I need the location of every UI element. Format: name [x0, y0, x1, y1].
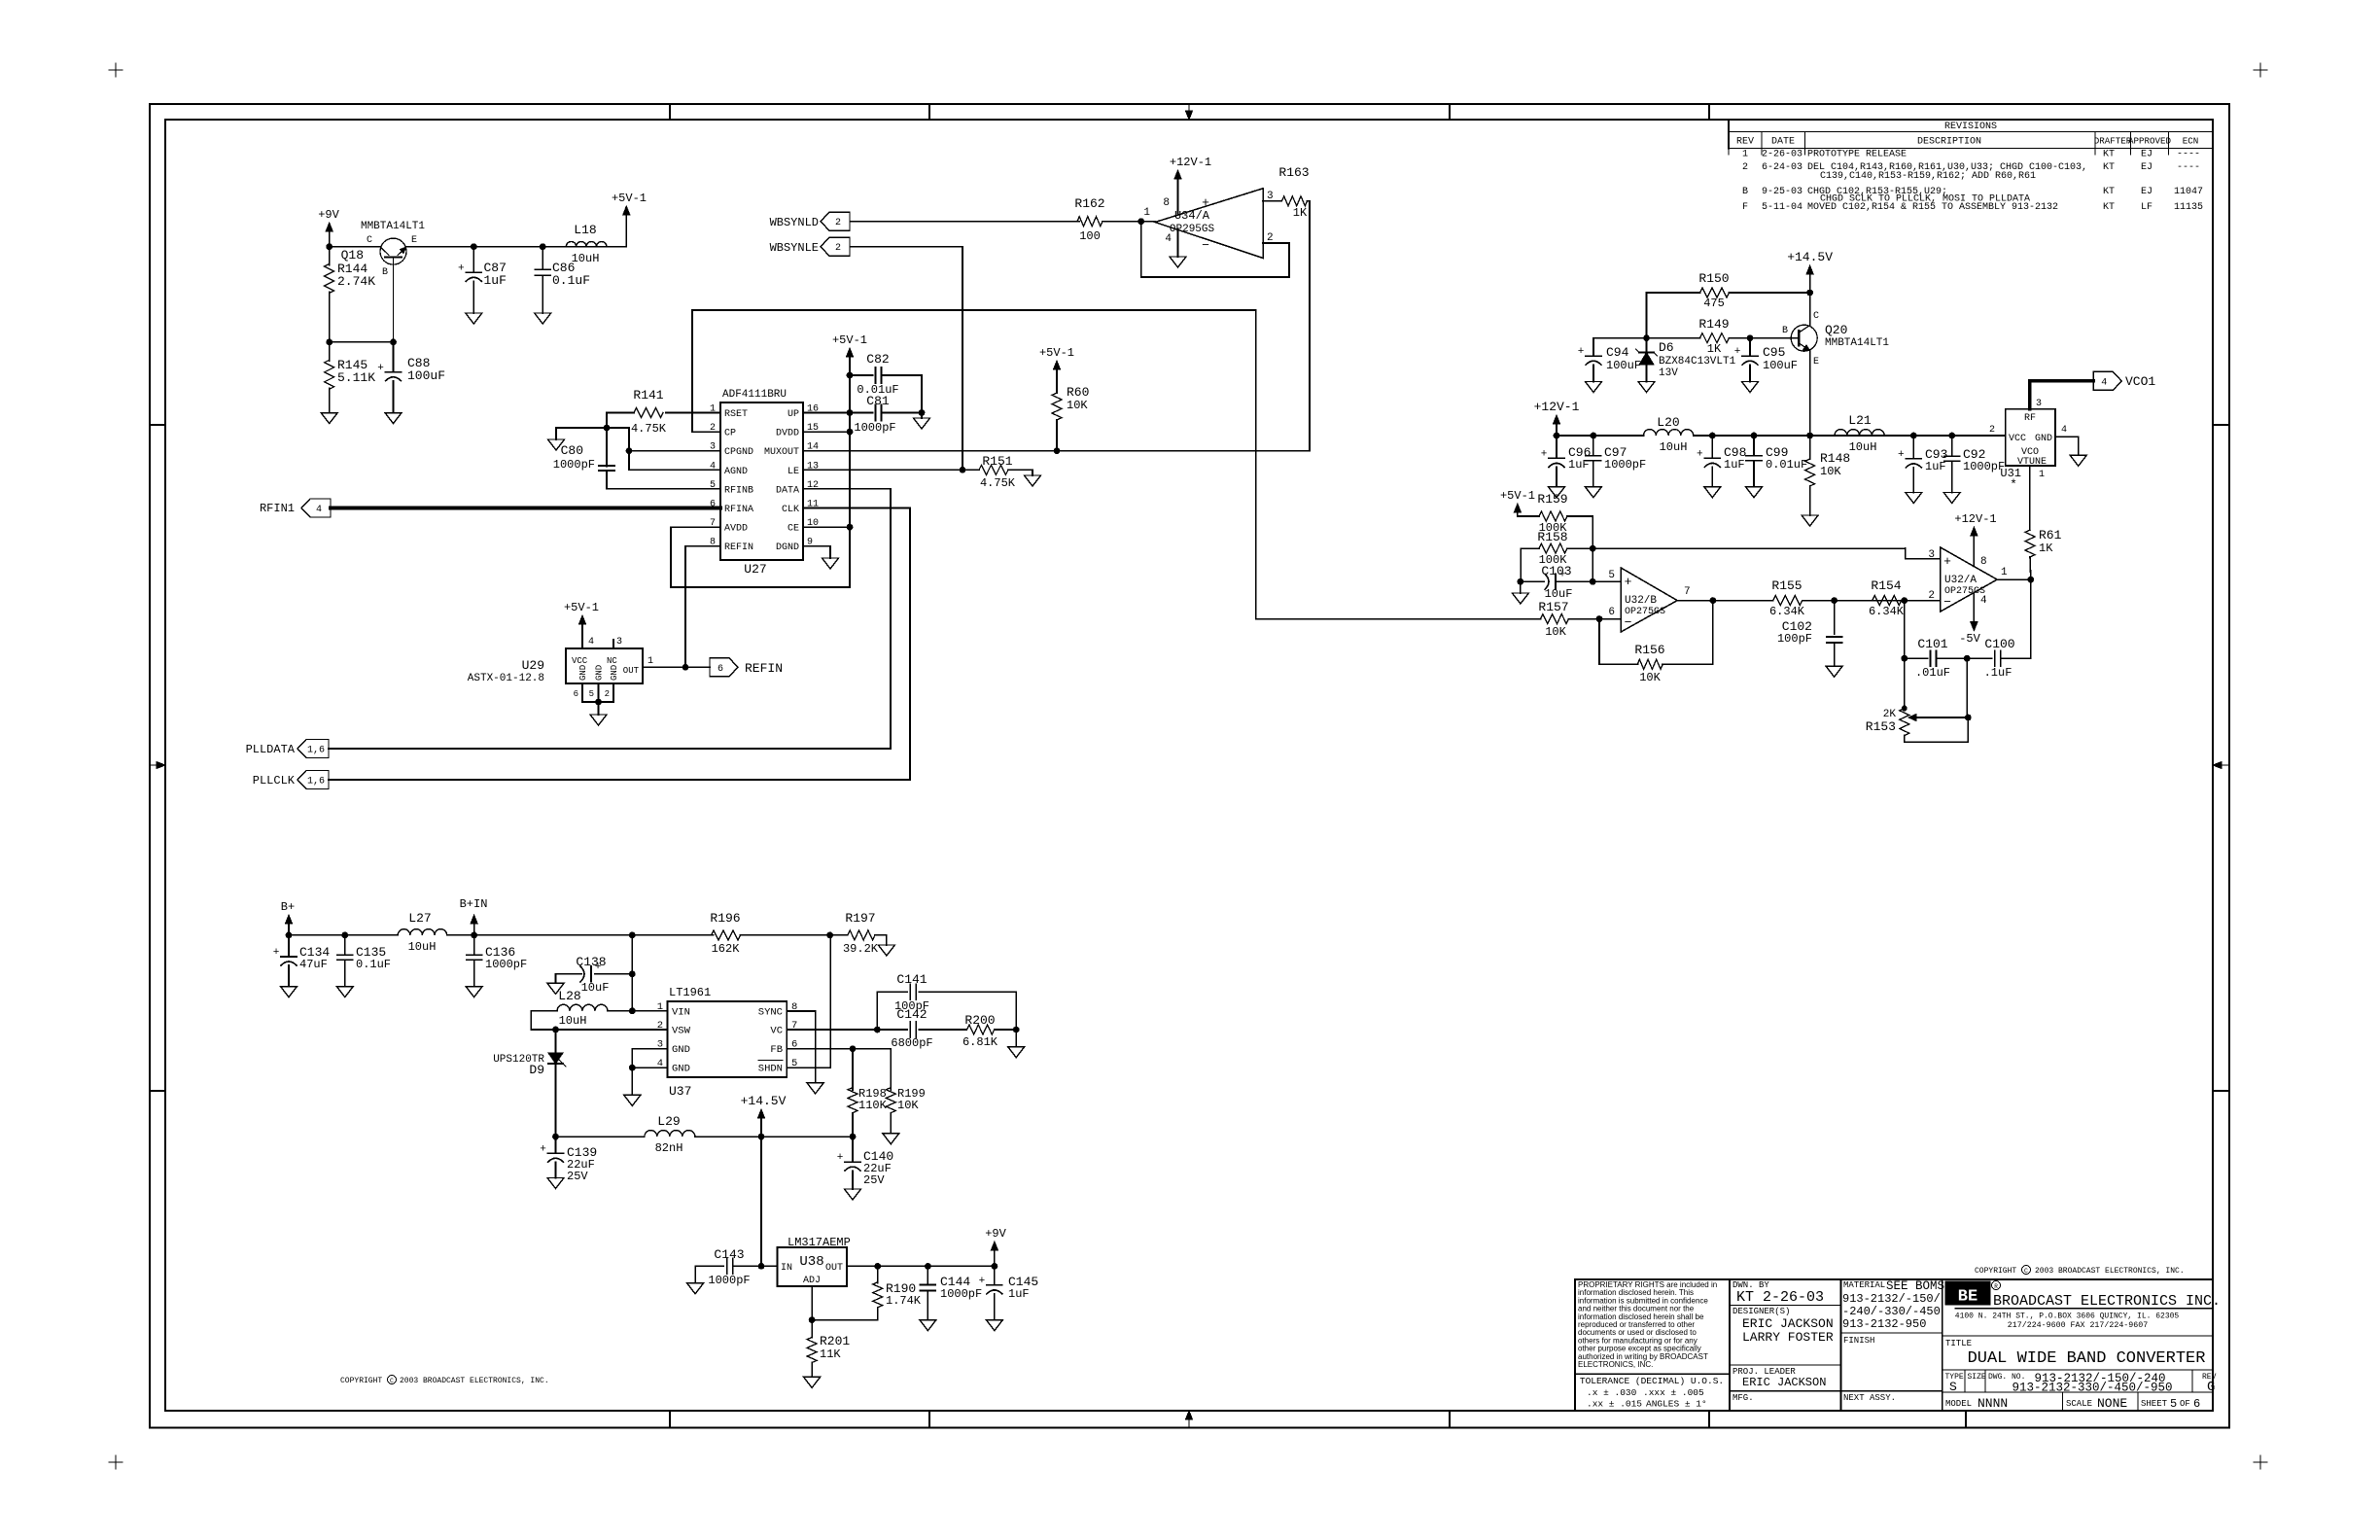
svg-text:U34/A: U34/A	[1174, 209, 1210, 223]
svg-text:C: C	[2024, 1268, 2028, 1275]
svg-text:C81: C81	[866, 394, 890, 408]
svg-text:2-26-03: 2-26-03	[1762, 150, 1802, 160]
svg-text:KT: KT	[2103, 150, 2115, 160]
svg-text:DATE: DATE	[1771, 137, 1795, 148]
svg-text:C101: C101	[1917, 637, 1947, 651]
svg-text:ERIC JACKSON: ERIC JACKSON	[1742, 1376, 1826, 1389]
svg-text:−: −	[1943, 595, 1951, 610]
svg-text:1K: 1K	[2039, 542, 2053, 555]
svg-text:+12V-1: +12V-1	[1534, 400, 1580, 414]
svg-text:R162: R162	[1074, 196, 1104, 211]
svg-text:LE: LE	[787, 467, 799, 477]
svg-text:VCC: VCC	[572, 656, 588, 666]
svg-text:KT 2-26-03: KT 2-26-03	[1736, 1289, 1824, 1306]
svg-text:6-24-03: 6-24-03	[1762, 162, 1802, 173]
svg-text:GND: GND	[2035, 434, 2052, 444]
svg-text:NNNN: NNNN	[1977, 1396, 2008, 1411]
svg-text:11135: 11135	[2174, 202, 2203, 213]
svg-text:6.34K: 6.34K	[1869, 605, 1905, 618]
svg-text:.xxx ± .005: .xxx ± .005	[1643, 1387, 1704, 1398]
svg-text:ANGLES ± 1°: ANGLES ± 1°	[1646, 1399, 1707, 1410]
svg-text:*: *	[2010, 477, 2017, 492]
svg-text:SCALE: SCALE	[2066, 1399, 2092, 1409]
svg-text:9-25-03: 9-25-03	[1762, 187, 1802, 197]
svg-text:10K: 10K	[1067, 399, 1088, 412]
svg-text:1000pF: 1000pF	[1963, 460, 2005, 473]
svg-text:10uH: 10uH	[408, 940, 437, 954]
svg-text:4: 4	[316, 505, 322, 515]
svg-text:0.1uF: 0.1uF	[356, 958, 391, 971]
svg-text:TITLE: TITLE	[1945, 1339, 1972, 1348]
svg-text:REV: REV	[1736, 137, 1754, 148]
svg-text:1: 1	[647, 656, 653, 667]
svg-text:R157: R157	[1538, 600, 1568, 614]
svg-text:4: 4	[1980, 595, 1987, 607]
svg-text:110K: 110K	[858, 1099, 888, 1112]
svg-text:RSET: RSET	[724, 409, 748, 420]
svg-text:OUT: OUT	[825, 1263, 843, 1274]
svg-text:----: ----	[2177, 150, 2200, 160]
svg-text:10uH: 10uH	[1849, 440, 1877, 454]
svg-text:DESCRIPTION: DESCRIPTION	[1917, 137, 1981, 148]
svg-text:8: 8	[1163, 197, 1170, 209]
svg-text:B+: B+	[281, 900, 295, 914]
svg-text:DUAL WIDE BAND CONVERTER: DUAL WIDE BAND CONVERTER	[1968, 1349, 2206, 1368]
svg-text:11047: 11047	[2174, 187, 2203, 197]
svg-text:+: +	[1898, 449, 1905, 461]
svg-text:RF: RF	[2024, 413, 2036, 424]
svg-text:CLK: CLK	[782, 505, 799, 515]
svg-text:5: 5	[2170, 1397, 2177, 1411]
svg-text:U32/A: U32/A	[1944, 575, 1977, 586]
svg-text:.1uF: .1uF	[1984, 666, 2012, 680]
svg-text:B+IN: B+IN	[460, 897, 488, 911]
svg-text:C: C	[1813, 311, 1819, 322]
svg-text:ASTX-01-12.8: ASTX-01-12.8	[468, 673, 544, 684]
svg-text:C141: C141	[896, 972, 927, 987]
svg-text:25V: 25V	[863, 1173, 885, 1187]
svg-text:U38: U38	[799, 1254, 823, 1270]
svg-text:6800pF: 6800pF	[891, 1036, 932, 1050]
svg-text:1000pF: 1000pF	[553, 458, 595, 472]
svg-text:+9V: +9V	[318, 208, 339, 222]
svg-text:1000pF: 1000pF	[940, 1287, 982, 1301]
svg-text:1: 1	[2001, 567, 2008, 578]
svg-text:GND: GND	[578, 665, 588, 681]
svg-text:10uH: 10uH	[1660, 440, 1688, 454]
svg-text:+: +	[540, 1143, 546, 1155]
svg-text:GND: GND	[595, 665, 605, 681]
svg-text:RFIN1: RFIN1	[260, 502, 295, 515]
svg-text:R156: R156	[1634, 643, 1664, 657]
svg-text:OF: OF	[2180, 1399, 2190, 1409]
svg-text:Q20: Q20	[1825, 323, 1847, 337]
svg-text:2: 2	[835, 243, 841, 254]
svg-text:+14.5V: +14.5V	[741, 1094, 787, 1108]
svg-text:R200: R200	[964, 1013, 995, 1028]
svg-text:5: 5	[589, 689, 594, 699]
svg-text:B: B	[1742, 187, 1748, 197]
svg-text:C80: C80	[561, 443, 583, 458]
svg-text:LT1961: LT1961	[669, 986, 711, 999]
svg-text:L27: L27	[408, 911, 431, 926]
svg-text:VCO1: VCO1	[2125, 374, 2155, 389]
svg-text:6.34K: 6.34K	[1769, 605, 1805, 618]
svg-text:.x ± .030: .x ± .030	[1587, 1387, 1637, 1398]
svg-text:REFIN: REFIN	[745, 661, 783, 676]
svg-text:PLLCLK: PLLCLK	[253, 774, 296, 787]
svg-text:MOVED C102,R154 & R155 TO ASSE: MOVED C102,R154 & R155 TO ASSEMBLY 913-2…	[1807, 202, 2058, 213]
svg-text:6: 6	[2193, 1397, 2200, 1411]
svg-text:R151: R151	[982, 454, 1012, 469]
svg-text:1000pF: 1000pF	[854, 421, 895, 435]
svg-text:10uF: 10uF	[581, 981, 610, 995]
svg-text:D6: D6	[1659, 340, 1674, 355]
svg-text:+: +	[1943, 554, 1951, 569]
svg-text:−: −	[1202, 238, 1209, 253]
svg-text:R159: R159	[1537, 492, 1567, 507]
svg-text:AGND: AGND	[724, 467, 748, 477]
svg-text:R163: R163	[1278, 165, 1309, 180]
svg-text:OUT: OUT	[623, 666, 640, 676]
svg-text:L21: L21	[1848, 413, 1872, 428]
svg-text:6: 6	[574, 689, 578, 699]
svg-text:100uF: 100uF	[1606, 359, 1641, 372]
svg-text:+: +	[1541, 448, 1548, 460]
svg-text:6.81K: 6.81K	[962, 1035, 998, 1049]
svg-text:10uF: 10uF	[1545, 587, 1573, 601]
svg-text:E: E	[1813, 357, 1819, 367]
svg-text:10K: 10K	[1820, 465, 1841, 478]
svg-text:C82: C82	[866, 352, 889, 367]
svg-text:4: 4	[1165, 233, 1172, 245]
svg-text:+5V-1: +5V-1	[832, 333, 867, 347]
svg-text:SHDN: SHDN	[758, 1064, 783, 1075]
svg-text:R153: R153	[1866, 719, 1896, 734]
svg-text:1uF: 1uF	[484, 273, 507, 288]
svg-text:VIN: VIN	[672, 1006, 690, 1018]
svg-text:EJ: EJ	[2141, 187, 2152, 197]
svg-text:DESIGNER(S): DESIGNER(S)	[1732, 1307, 1790, 1316]
svg-text:U37: U37	[669, 1084, 691, 1099]
svg-text:2003 BROADCAST ELECTRONICS, IN: 2003 BROADCAST ELECTRONICS, INC.	[2035, 1267, 2185, 1276]
svg-text:+: +	[377, 363, 384, 374]
svg-text:ADF4111BRU: ADF4111BRU	[722, 389, 787, 401]
svg-text:R148: R148	[1820, 451, 1850, 466]
svg-text:3: 3	[616, 637, 622, 647]
svg-text:C103: C103	[1541, 564, 1571, 578]
svg-text:U29: U29	[522, 658, 544, 673]
svg-text:GND: GND	[672, 1044, 690, 1056]
svg-text:COPYRIGHT: COPYRIGHT	[1975, 1267, 2016, 1276]
svg-text:EJ: EJ	[2141, 162, 2152, 173]
svg-text:RFINB: RFINB	[724, 485, 753, 496]
svg-text:KT: KT	[2103, 202, 2115, 213]
svg-text:11K: 11K	[820, 1347, 841, 1361]
svg-text:C94: C94	[1606, 345, 1629, 360]
svg-text:DGND: DGND	[776, 542, 799, 553]
svg-text:F: F	[1742, 202, 1748, 213]
svg-text:R155: R155	[1771, 578, 1802, 593]
svg-text:+5V-1: +5V-1	[1039, 346, 1074, 360]
svg-text:NC: NC	[607, 656, 617, 666]
svg-text:BROADCAST ELECTRONICS INC.: BROADCAST ELECTRONICS INC.	[1993, 1293, 2221, 1310]
svg-text:R201: R201	[820, 1334, 850, 1348]
svg-text:1000pF: 1000pF	[485, 958, 527, 971]
svg-text:DATA: DATA	[776, 485, 799, 496]
svg-text:L28: L28	[558, 989, 580, 1003]
svg-text:VCC: VCC	[2009, 434, 2026, 444]
svg-text:1: 1	[2039, 470, 2045, 480]
svg-text:NEXT ASSY.: NEXT ASSY.	[1843, 1393, 1896, 1403]
svg-text:1,6: 1,6	[307, 746, 325, 756]
svg-text:+5V-1: +5V-1	[1500, 489, 1535, 503]
svg-text:RFINA: RFINA	[724, 505, 753, 515]
svg-text:+12V-1: +12V-1	[1170, 156, 1211, 169]
svg-text:+: +	[979, 1276, 986, 1287]
svg-text:UP: UP	[787, 409, 799, 420]
svg-text:R154: R154	[1871, 578, 1901, 593]
svg-text:2003 BROADCAST ELECTRONICS, IN: 2003 BROADCAST ELECTRONICS, INC.	[400, 1377, 549, 1385]
svg-text:PROTOTYPE RELEASE: PROTOTYPE RELEASE	[1807, 150, 1907, 160]
svg-text:3: 3	[2036, 399, 2042, 409]
svg-text:L20: L20	[1657, 415, 1679, 430]
svg-text:6: 6	[717, 664, 723, 675]
svg-text:VC: VC	[770, 1026, 783, 1037]
svg-text:B: B	[1782, 326, 1788, 336]
svg-text:AVDD: AVDD	[724, 524, 748, 535]
svg-text:MUXOUT: MUXOUT	[764, 447, 799, 458]
svg-text:KT: KT	[2103, 162, 2115, 173]
svg-text:ELECTRONICS, INC.: ELECTRONICS, INC.	[1578, 1360, 1653, 1369]
svg-text:10uH: 10uH	[559, 1014, 587, 1028]
svg-text:100pF: 100pF	[1777, 632, 1812, 646]
svg-text:OP295GS: OP295GS	[1170, 224, 1215, 235]
svg-text:E: E	[411, 235, 417, 246]
svg-text:CPGND: CPGND	[724, 447, 753, 458]
svg-text:6: 6	[1608, 607, 1615, 618]
svg-text:100: 100	[1079, 229, 1101, 243]
svg-text:−: −	[1625, 615, 1632, 630]
svg-text:C: C	[390, 1378, 394, 1384]
svg-text:KT: KT	[2103, 187, 2115, 197]
svg-text:10K: 10K	[1545, 625, 1566, 639]
svg-text:2: 2	[1989, 425, 1995, 436]
svg-text:C100: C100	[1984, 637, 2014, 651]
svg-text:217/224-9600 FAX 217/224-9607: 217/224-9600 FAX 217/224-9607	[2008, 1320, 2148, 1330]
svg-text:25V: 25V	[567, 1170, 588, 1183]
svg-text:SHEET: SHEET	[2141, 1399, 2168, 1409]
svg-text:LARRY FOSTER: LARRY FOSTER	[1742, 1330, 1834, 1345]
svg-text:1: 1	[1742, 150, 1748, 160]
svg-text:VTUNE: VTUNE	[2017, 457, 2047, 468]
svg-text:R196: R196	[710, 911, 740, 926]
svg-text:5-11-04: 5-11-04	[1762, 202, 1802, 213]
svg-text:+: +	[1578, 346, 1585, 358]
svg-text:WBSYNLE: WBSYNLE	[770, 241, 819, 255]
svg-text:5.11K: 5.11K	[337, 370, 375, 385]
svg-text:C143: C143	[714, 1247, 744, 1262]
svg-text:1: 1	[657, 1001, 663, 1013]
svg-text:GND: GND	[610, 665, 619, 681]
svg-text:1.74K: 1.74K	[886, 1294, 922, 1308]
svg-text:R158: R158	[1537, 530, 1567, 544]
svg-text:REFIN: REFIN	[724, 542, 753, 553]
svg-text:MODEL: MODEL	[1945, 1399, 1972, 1409]
svg-text:13V: 13V	[1659, 367, 1678, 379]
svg-text:R149: R149	[1698, 317, 1729, 332]
svg-text:MFG.: MFG.	[1732, 1393, 1754, 1403]
svg-text:ECN: ECN	[2183, 136, 2199, 147]
svg-text:0.1uF: 0.1uF	[552, 273, 590, 288]
svg-text:+5V-1: +5V-1	[564, 601, 599, 614]
svg-text:+12V-1: +12V-1	[1954, 512, 1996, 526]
svg-text:OP275GS: OP275GS	[1944, 586, 1985, 597]
svg-text:MATERIAL: MATERIAL	[1843, 1280, 1885, 1290]
svg-text:C95: C95	[1763, 345, 1785, 360]
svg-text:TOLERANCE (DECIMAL) U.O.S.: TOLERANCE (DECIMAL) U.O.S.	[1580, 1376, 1724, 1386]
svg-text:+: +	[458, 262, 465, 274]
svg-text:NONE: NONE	[2097, 1396, 2127, 1411]
svg-text:2: 2	[605, 689, 610, 699]
svg-text:2.74K: 2.74K	[337, 274, 375, 289]
svg-text:4.75K: 4.75K	[631, 422, 667, 436]
svg-text:IN: IN	[781, 1263, 792, 1274]
svg-text:1uF: 1uF	[1724, 458, 1745, 472]
svg-text:DVDD: DVDD	[776, 429, 799, 439]
svg-text:+9V: +9V	[985, 1227, 1006, 1241]
svg-text:BZX84C13VLT1: BZX84C13VLT1	[1659, 356, 1736, 367]
svg-text:R60: R60	[1067, 385, 1089, 400]
svg-text:+: +	[837, 1152, 844, 1164]
svg-text:FINISH: FINISH	[1843, 1336, 1874, 1346]
svg-text:4: 4	[2061, 425, 2067, 436]
svg-text:4: 4	[588, 637, 594, 647]
svg-text:8: 8	[1980, 556, 1987, 568]
svg-text:WBSYNLD: WBSYNLD	[770, 216, 819, 229]
svg-text:10uH: 10uH	[572, 252, 600, 265]
svg-text:R197: R197	[845, 911, 875, 926]
svg-text:LM317AEMP: LM317AEMP	[787, 1236, 851, 1249]
svg-text:82nH: 82nH	[655, 1141, 683, 1155]
svg-text:COPYRIGHT: COPYRIGHT	[340, 1377, 382, 1385]
svg-text:FB: FB	[770, 1044, 783, 1056]
svg-text:5: 5	[1608, 570, 1615, 581]
svg-text:+14.5V: +14.5V	[1787, 250, 1833, 264]
svg-text:+: +	[273, 947, 280, 959]
svg-text:CE: CE	[787, 524, 799, 535]
svg-text:1K: 1K	[1293, 206, 1308, 220]
svg-text:10K: 10K	[897, 1099, 919, 1112]
svg-text:DRAFTER: DRAFTER	[2094, 136, 2132, 147]
svg-text:D9: D9	[529, 1063, 544, 1077]
svg-text:MMBTA14LT1: MMBTA14LT1	[361, 221, 425, 232]
svg-text:1,6: 1,6	[307, 777, 325, 787]
svg-text:----: ----	[2177, 162, 2200, 173]
svg-text:+5V-1: +5V-1	[612, 192, 647, 205]
svg-text:B: B	[382, 267, 388, 278]
svg-text:PLLDATA: PLLDATA	[246, 743, 296, 756]
svg-text:SYNC: SYNC	[758, 1006, 783, 1018]
svg-text:MMBTA14LT1: MMBTA14LT1	[1825, 337, 1889, 349]
svg-text:1000pF: 1000pF	[708, 1274, 750, 1287]
svg-text:2: 2	[835, 218, 841, 228]
svg-text:C139,C140,R153-R159,R162; ADD: C139,C140,R153-R159,R162; ADD R60,R61	[1820, 171, 2036, 182]
svg-text:4.75K: 4.75K	[980, 476, 1016, 490]
svg-text:OP275GS: OP275GS	[1625, 607, 1665, 617]
svg-text:1: 1	[1143, 207, 1150, 219]
svg-text:2: 2	[1742, 162, 1748, 173]
svg-text:100uF: 100uF	[407, 368, 445, 383]
svg-text:LF: LF	[2141, 202, 2152, 213]
svg-text:C: C	[367, 235, 372, 246]
svg-text:10K: 10K	[1639, 671, 1661, 684]
svg-text:R: R	[1994, 1283, 1998, 1290]
svg-text:39.2K: 39.2K	[843, 942, 879, 956]
svg-text:APPROVED: APPROVED	[2128, 136, 2172, 147]
svg-text:1000pF: 1000pF	[1604, 458, 1646, 472]
svg-text:BE: BE	[1958, 1288, 1977, 1307]
svg-text:EJ: EJ	[2141, 150, 2152, 160]
svg-text:L18: L18	[574, 223, 596, 237]
svg-text:.01uF: .01uF	[1915, 666, 1950, 680]
svg-text:U32/B: U32/B	[1625, 595, 1657, 607]
svg-text:7: 7	[1684, 586, 1691, 598]
svg-text:SIZE: SIZE	[1968, 1373, 1986, 1382]
svg-text:L29: L29	[657, 1114, 680, 1129]
svg-text:U27: U27	[744, 562, 766, 577]
svg-text:-240/-330/-450: -240/-330/-450	[1842, 1305, 1941, 1318]
svg-text:2: 2	[657, 1020, 663, 1032]
svg-text:REVISIONS: REVISIONS	[1944, 122, 1997, 132]
svg-text:4100 N. 24TH ST., P.O.BOX 3606: 4100 N. 24TH ST., P.O.BOX 3606 QUINCY, I…	[1955, 1312, 2180, 1321]
svg-text:Q18: Q18	[341, 248, 364, 262]
svg-text:ERIC JACKSON: ERIC JACKSON	[1742, 1316, 1834, 1331]
svg-text:VSW: VSW	[672, 1026, 691, 1037]
svg-text:1uF: 1uF	[1925, 460, 1946, 473]
svg-text:-5V: -5V	[1959, 632, 1980, 646]
svg-text:913-2132-950: 913-2132-950	[1842, 1317, 1926, 1331]
svg-text:162K: 162K	[712, 942, 741, 956]
svg-text:C138: C138	[576, 955, 606, 969]
svg-text:913-2132/-150/: 913-2132/-150/	[1842, 1292, 1941, 1306]
svg-text:1K: 1K	[1707, 342, 1722, 356]
svg-text:+: +	[1734, 346, 1741, 358]
svg-text:ADJ: ADJ	[803, 1276, 821, 1286]
svg-text:100pF: 100pF	[894, 999, 929, 1013]
svg-text:475: 475	[1703, 297, 1725, 310]
svg-text:CP: CP	[724, 429, 736, 439]
svg-text:.xx ± .015: .xx ± .015	[1587, 1399, 1642, 1410]
svg-text:GND: GND	[672, 1064, 690, 1075]
svg-text:+: +	[1202, 195, 1209, 210]
svg-text:47uF: 47uF	[299, 958, 328, 971]
svg-text:R141: R141	[633, 388, 663, 402]
svg-text:SEE BOMS: SEE BOMS	[1886, 1279, 1944, 1293]
svg-text:1uF: 1uF	[1008, 1287, 1030, 1301]
svg-text:100uF: 100uF	[1763, 359, 1798, 372]
svg-text:R150: R150	[1698, 271, 1729, 286]
svg-text:0.01uF: 0.01uF	[1766, 458, 1807, 472]
svg-text:+: +	[1625, 575, 1632, 589]
svg-text:4: 4	[2101, 377, 2107, 388]
svg-text:R61: R61	[2039, 528, 2062, 542]
svg-text:+: +	[1697, 448, 1703, 460]
